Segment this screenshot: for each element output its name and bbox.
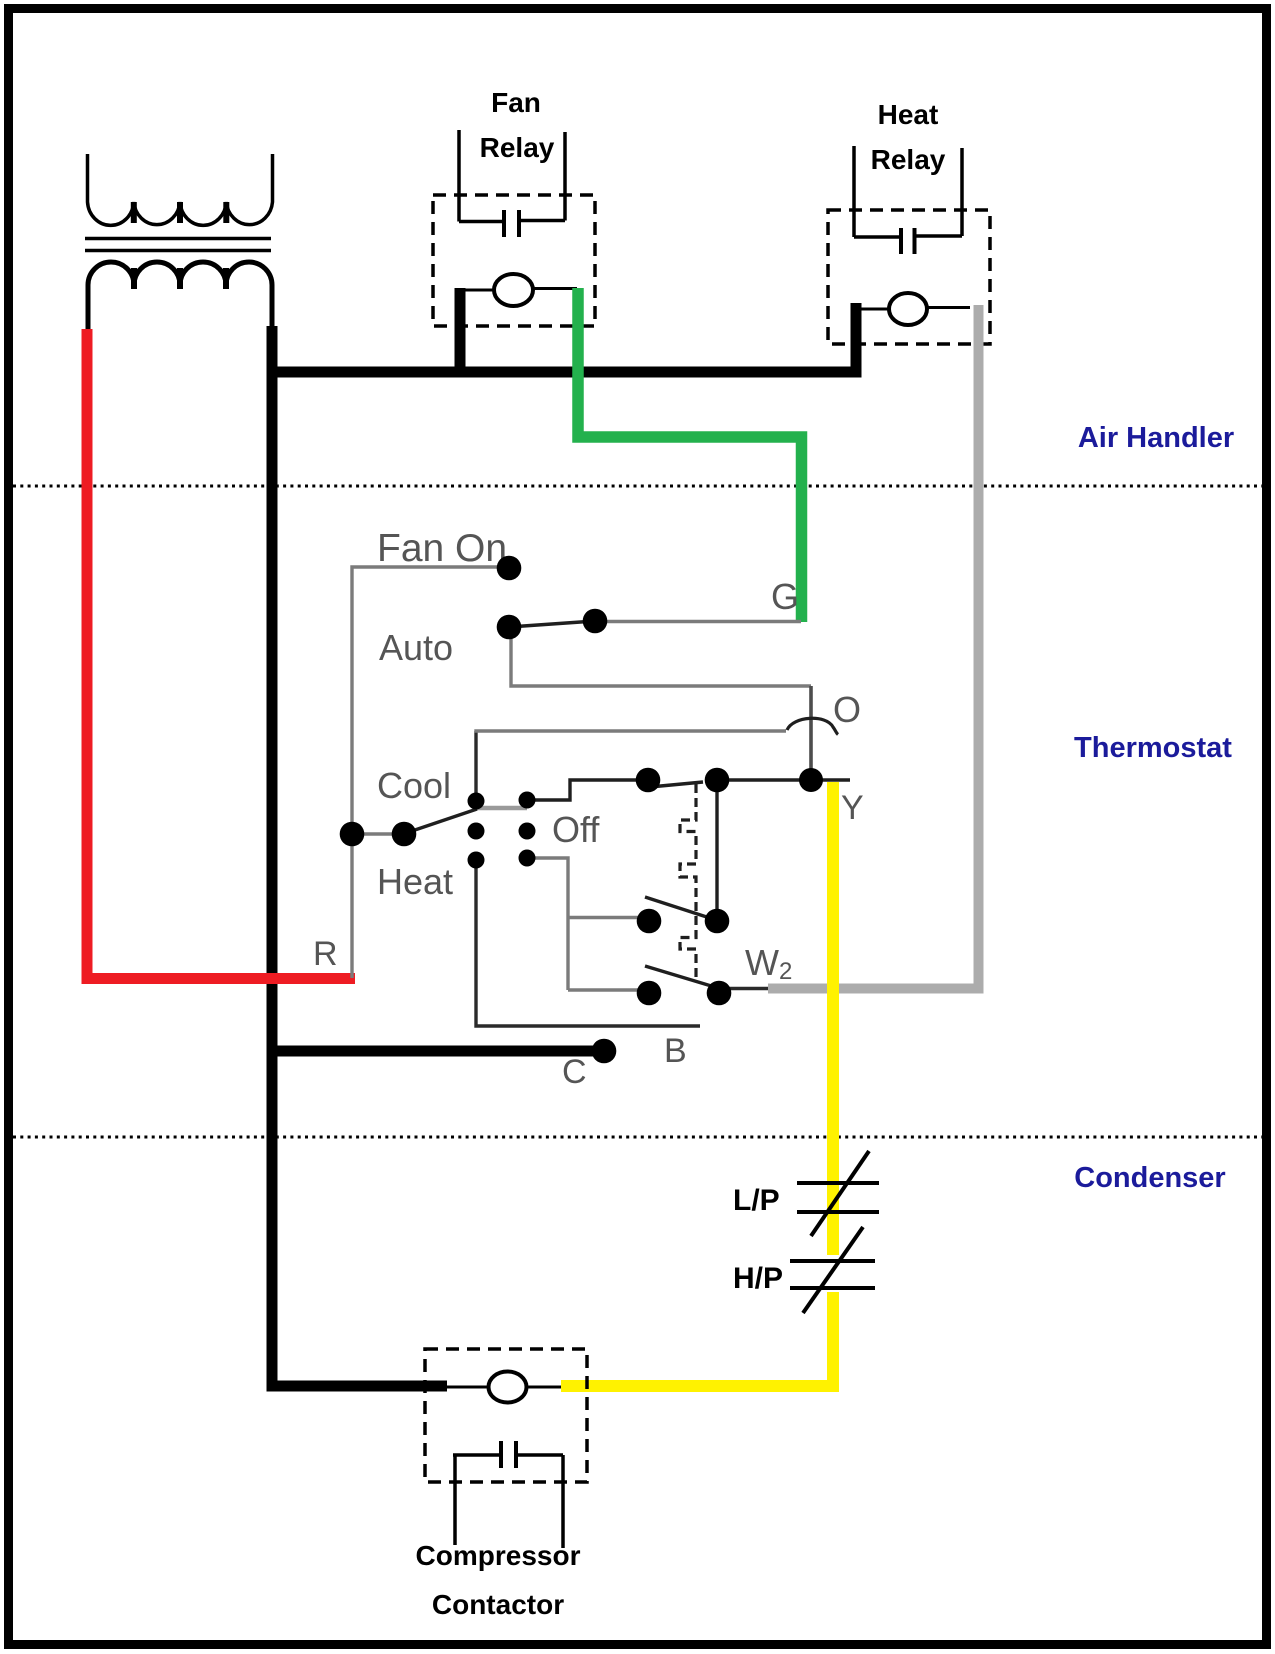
- svg-text:Thermostat: Thermostat: [1074, 732, 1232, 764]
- compressor contactor dashed enclosure: [425, 1349, 587, 1482]
- wire gray W2 from heat relay coil: [768, 305, 979, 989]
- svg-text:Cool: Cool: [377, 765, 451, 806]
- heat relay dashed enclosure: [828, 210, 990, 344]
- wire cool contact pair link: [476, 806, 527, 811]
- node heat switch 2 left: [637, 981, 662, 1006]
- svg-text:Fan On: Fan On: [377, 527, 507, 570]
- switch arm mode selector: [406, 809, 477, 833]
- section divider line (Thermostat / Condenser): [13, 1136, 1263, 1139]
- contact cool pole 2: [519, 792, 536, 809]
- svg-text:Relay: Relay: [480, 132, 555, 163]
- contact off pole 1: [468, 823, 485, 840]
- contact off pole 2: [519, 823, 536, 840]
- fan relay label: [480, 87, 555, 163]
- node heat switch 2 right: [707, 981, 732, 1006]
- wire black common trunk from transformer secondary: [272, 326, 447, 1386]
- svg-text:Y: Y: [841, 789, 864, 827]
- pressure switch L/P: [797, 1151, 879, 1236]
- wire cooling switch to Y terminal: [717, 778, 850, 781]
- svg-text:Fan: Fan: [491, 87, 541, 118]
- transformer T1 core: [85, 239, 271, 251]
- node cooling switch right: [705, 768, 730, 793]
- wire to middle switch: [568, 916, 649, 919]
- node mode arm pivot: [392, 822, 417, 847]
- svg-text:H/P: H/P: [733, 1262, 783, 1295]
- wire auto contact down to Y node: [511, 627, 811, 686]
- compressor contactor contact K3: [453, 1441, 563, 1548]
- contact heat pole 1: [468, 852, 485, 869]
- node heat switch 1 right: [705, 909, 730, 934]
- wire to bottom switch: [568, 988, 649, 991]
- transformer T1 primary winding: [88, 154, 273, 225]
- svg-text:Heat: Heat: [377, 861, 453, 902]
- wire green G from fan relay coil: [578, 288, 802, 622]
- wire black fan relay riser: [455, 288, 466, 377]
- fan relay contact K1: [459, 130, 565, 237]
- svg-text:Compressor: Compressor: [416, 1540, 581, 1571]
- node auto throw: [583, 609, 608, 634]
- node fan-on contact: [497, 556, 522, 581]
- svg-text:O: O: [833, 689, 861, 730]
- wire cool contact to cooling switch: [527, 780, 648, 800]
- compressor contactor coil: [447, 1372, 561, 1403]
- node R pivot: [340, 822, 365, 847]
- contact cool pole 1: [468, 793, 485, 810]
- wire yellow Y lower segment: [827, 1292, 839, 1392]
- svg-text:R: R: [313, 935, 338, 973]
- node Y junction: [799, 768, 823, 792]
- switch arm heat stage 1: [645, 897, 716, 920]
- pressure switch H/P: [790, 1227, 875, 1313]
- node heat switch 1 left: [637, 909, 662, 934]
- heat relay coil: [861, 293, 970, 325]
- wire yellow Y upper segment: [827, 782, 839, 1255]
- svg-text:Relay: Relay: [871, 144, 946, 175]
- svg-text:Condenser: Condenser: [1074, 1162, 1225, 1194]
- fan relay coil: [460, 274, 577, 306]
- svg-text:Contactor: Contactor: [432, 1589, 564, 1620]
- switch arm heat stage 2: [645, 966, 718, 988]
- wire bottom switch to W2: [719, 987, 768, 990]
- wire fan-on contact to R rail: [352, 567, 509, 978]
- wire heat contact to lower switches: [527, 858, 568, 990]
- wire yellow Y to compressor contactor: [561, 1380, 839, 1392]
- svg-text:Auto: Auto: [379, 627, 453, 668]
- section divider line (Air Handler / Thermostat): [13, 485, 1263, 488]
- mechanical linkage: [680, 784, 696, 977]
- heat relay contact K2: [854, 146, 962, 254]
- wire R pivot link: [352, 832, 404, 835]
- contact heat pole 2: [519, 850, 536, 867]
- heat relay label: [871, 99, 946, 175]
- svg-text:L/P: L/P: [733, 1184, 780, 1217]
- transformer T1 secondary winding: [88, 262, 272, 329]
- svg-text:Off: Off: [552, 809, 600, 850]
- wire black 24V bus to relays: [272, 303, 856, 372]
- wire black C branch to thermostat: [272, 1046, 596, 1057]
- svg-text:Heat: Heat: [878, 99, 939, 130]
- node C terminal: [592, 1039, 617, 1064]
- wire cooling switch right leg: [715, 780, 718, 921]
- wire red R from transformer secondary: [87, 329, 355, 979]
- svg-text:C: C: [562, 1053, 587, 1091]
- wire cool contact to O terminal: [474, 731, 477, 800]
- O terminal crossover hop: [787, 718, 838, 734]
- node auto pivot: [497, 615, 522, 640]
- svg-text:B: B: [664, 1032, 687, 1070]
- svg-text:Air Handler: Air Handler: [1078, 422, 1234, 454]
- compressor contactor label: [416, 1540, 581, 1620]
- svg-text:G: G: [771, 576, 799, 617]
- wire auto contact to G: [595, 620, 801, 623]
- fan relay dashed enclosure: [433, 195, 595, 326]
- wire heat contact to B terminal: [476, 860, 700, 1026]
- switch arm cooling: [650, 782, 703, 787]
- node cooling switch left: [636, 768, 661, 793]
- switch arm fan auto: [509, 621, 595, 627]
